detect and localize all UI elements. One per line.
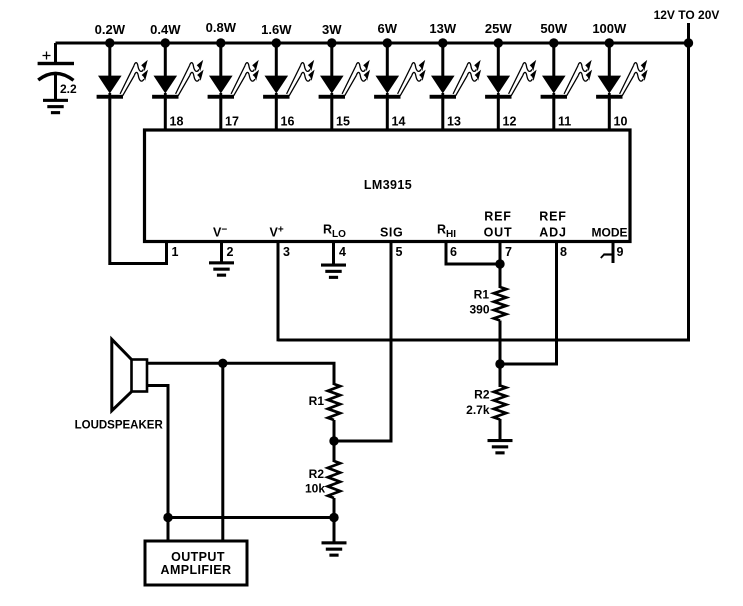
node supply junction xyxy=(684,38,693,47)
svg-text:0.2W: 0.2W xyxy=(95,22,126,37)
svg-text:0.4W: 0.4W xyxy=(150,22,181,37)
wire R1 to node xyxy=(333,420,336,441)
LED D8 25W xyxy=(485,41,537,100)
wire R2 10k to bottom node xyxy=(333,498,336,542)
svg-text:RLO: RLO xyxy=(323,223,346,241)
wire D9 cathode to pin 11 xyxy=(552,99,555,130)
wire R1 390 to REF ADJ node xyxy=(499,321,502,365)
node rail junction 5 xyxy=(327,38,336,47)
svg-text:390: 390 xyxy=(469,303,489,317)
LED D1 0.2W xyxy=(97,41,149,100)
svg-text:0.8W: 0.8W xyxy=(206,20,237,35)
svg-text:13W: 13W xyxy=(429,21,456,36)
svg-text:6W: 6W xyxy=(378,21,398,36)
wire D6 cathode to pin 14 xyxy=(386,99,389,130)
node rail junction 4 xyxy=(272,38,281,47)
node rail junction 3 xyxy=(216,38,225,47)
wire pin 8 to junction xyxy=(500,242,557,365)
svg-text:R1: R1 xyxy=(474,288,490,302)
node REF ADJ junction xyxy=(495,359,504,368)
wire pin 3 V+ drop xyxy=(277,242,280,342)
wire junction down to amplifier xyxy=(221,363,224,541)
svg-text:1: 1 xyxy=(172,245,179,259)
wire D7 cathode to pin 13 xyxy=(441,99,444,130)
wire node to R2 10k xyxy=(333,441,336,462)
svg-text:SIG: SIG xyxy=(380,226,403,240)
svg-text:REF: REF xyxy=(539,210,566,224)
svg-text:OUTPUT: OUTPUT xyxy=(171,550,225,564)
svg-text:10: 10 xyxy=(614,115,628,129)
wire top supply rail xyxy=(56,42,689,45)
wire pin 7 stub xyxy=(499,242,502,289)
svg-text:REF: REF xyxy=(484,210,511,224)
ground (pin 2) xyxy=(209,261,234,276)
svg-text:5: 5 xyxy=(396,245,403,259)
svg-text:1.6W: 1.6W xyxy=(261,22,292,37)
node R2 bottom junction xyxy=(329,513,338,522)
svg-text:16: 16 xyxy=(281,115,295,129)
svg-text:3: 3 xyxy=(283,245,290,259)
node rail junction 1 xyxy=(105,38,114,47)
wire pin 4 stub xyxy=(332,242,335,264)
ground (R2 10k) xyxy=(322,541,347,556)
pin 9 MODE stub xyxy=(601,242,613,264)
resistor R1 390 xyxy=(469,287,506,321)
svg-text:R2: R2 xyxy=(474,388,490,402)
svg-text:2.7k: 2.7k xyxy=(466,403,490,417)
svg-text:8: 8 xyxy=(560,245,567,259)
wire pin 6 to pin 7 xyxy=(446,242,500,265)
svg-text:11: 11 xyxy=(558,115,571,129)
wire speaker bottom terminal xyxy=(147,386,168,542)
LED D2 0.4W xyxy=(152,41,204,100)
node rail junction 8 xyxy=(494,38,503,47)
wire bottom horizontal xyxy=(168,516,334,519)
node pin6/7 junction xyxy=(495,259,504,268)
svg-text:3W: 3W xyxy=(322,22,342,37)
wire D3 cathode to pin 17 xyxy=(219,99,222,130)
resistor R2 10k xyxy=(305,461,340,498)
wire D8 cathode to pin 12 xyxy=(497,99,500,130)
svg-text:ADJ: ADJ xyxy=(539,226,566,240)
svg-text:50W: 50W xyxy=(540,21,567,36)
node rail junction 7 xyxy=(438,38,447,47)
wire pin 2 stub xyxy=(220,242,223,262)
wire right drop to V+ xyxy=(278,43,689,340)
svg-text:9: 9 xyxy=(617,245,624,259)
ground (R2 2.7k) xyxy=(488,439,513,454)
LED D6 6W xyxy=(374,41,426,100)
capacitor C1 2.2 xyxy=(38,43,77,99)
wire pin 5 SIG to divider xyxy=(334,242,391,442)
svg-text:R1: R1 xyxy=(309,394,325,408)
svg-text:LOUDSPEAKER: LOUDSPEAKER xyxy=(75,420,164,432)
loudspeaker LS1 xyxy=(112,339,147,410)
svg-text:10k: 10k xyxy=(305,482,325,496)
svg-text:MODE: MODE xyxy=(592,226,628,240)
svg-text:7: 7 xyxy=(505,245,512,259)
wire D2 cathode to pin 18 xyxy=(164,99,167,130)
node rail junction 10 xyxy=(605,38,614,47)
svg-text:18: 18 xyxy=(170,115,184,129)
svg-text:25W: 25W xyxy=(485,21,512,36)
LED D9 50W xyxy=(541,41,593,100)
wire D1 cathode to pin 1 xyxy=(110,99,167,264)
svg-text:14: 14 xyxy=(392,115,406,129)
svg-text:15: 15 xyxy=(336,115,350,129)
svg-text:2.2: 2.2 xyxy=(60,82,77,96)
svg-text:6: 6 xyxy=(450,245,457,259)
wire D5 cathode to pin 15 xyxy=(330,99,333,130)
wire 12V stub xyxy=(687,23,690,43)
resistor R1 (divider) xyxy=(309,384,341,420)
node rail junction 6 xyxy=(383,38,392,47)
LED D5 3W xyxy=(319,41,371,100)
svg-text:V+: V+ xyxy=(270,225,284,240)
wire D4 cathode to pin 16 xyxy=(275,99,278,130)
LED D10 100W xyxy=(596,41,648,100)
svg-text:100W: 100W xyxy=(592,21,627,36)
svg-text:RHI: RHI xyxy=(437,223,456,241)
node rail junction 9 xyxy=(549,38,558,47)
node speaker/amp junction xyxy=(218,359,227,368)
output amplifier box xyxy=(145,541,247,585)
LED D7 13W xyxy=(430,41,482,100)
svg-text:V−: V− xyxy=(213,225,227,240)
svg-text:2: 2 xyxy=(227,245,234,259)
node rail junction 2 xyxy=(161,38,170,47)
svg-text:AMPLIFIER: AMPLIFIER xyxy=(161,563,232,577)
svg-text:R2: R2 xyxy=(309,467,325,481)
svg-text:17: 17 xyxy=(225,115,239,129)
resistor R2 2.7k xyxy=(466,386,506,420)
svg-text:OUT: OUT xyxy=(484,226,513,240)
LED D3 0.8W xyxy=(208,41,260,100)
svg-text:12V TO 20V: 12V TO 20V xyxy=(654,8,720,22)
wire R2 2.7k to ground xyxy=(499,364,502,387)
op-amp U1 LM3915 body xyxy=(145,130,631,242)
ground (capacitor) xyxy=(43,99,68,114)
node divider junction xyxy=(329,436,338,445)
LED D4 1.6W xyxy=(263,41,315,100)
node bottom-left junction xyxy=(163,513,172,522)
svg-text:13: 13 xyxy=(447,115,461,129)
svg-text:12: 12 xyxy=(503,115,517,129)
wire D10 cathode to pin 10 xyxy=(608,99,611,130)
svg-text:LM3915: LM3915 xyxy=(364,178,412,192)
ground (pin 4) xyxy=(321,264,346,279)
wire speaker top terminal to R1 xyxy=(147,363,334,385)
svg-text:4: 4 xyxy=(339,245,346,259)
